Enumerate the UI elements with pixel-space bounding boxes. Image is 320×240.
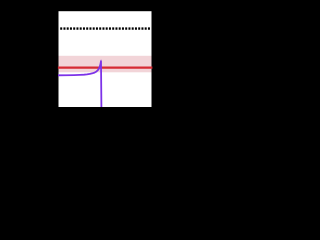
shaded band: [59, 56, 152, 73]
axes background: [59, 11, 152, 107]
dotted threshold line: [60, 27, 150, 29]
purple curve: [58, 61, 101, 107]
red level line: [58, 66, 152, 68]
faded spike tip: [100, 60, 102, 62]
